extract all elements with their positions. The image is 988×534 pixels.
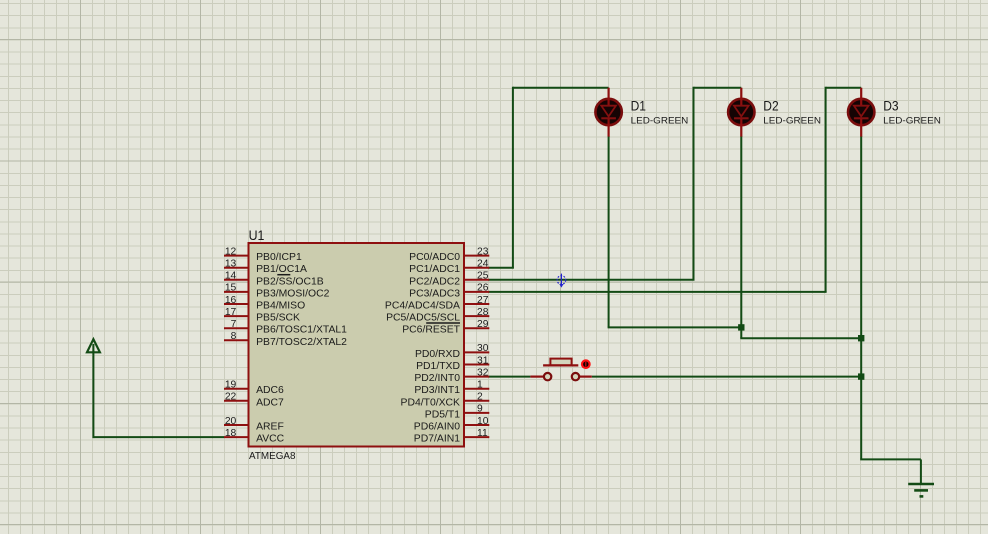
svg-text:13: 13 <box>225 259 237 270</box>
svg-text:PB6/TOSC1/XTAL1: PB6/TOSC1/XTAL1 <box>256 325 347 336</box>
pin 28 PC5/ADC5/SCL (right) <box>386 307 489 324</box>
svg-text:1: 1 <box>477 380 483 391</box>
pin 16 PB4/MISO (left) <box>224 295 305 312</box>
svg-text:PC6/RESET: PC6/RESET <box>402 325 460 336</box>
pin 18 AVCC (left) <box>224 428 285 445</box>
svg-text:PD3/INT1: PD3/INT1 <box>414 385 460 396</box>
svg-text:D1: D1 <box>631 98 646 114</box>
svg-text:PC5/ADC5/SCL: PC5/ADC5/SCL <box>386 313 460 324</box>
svg-text:ATMEGA8: ATMEGA8 <box>249 451 296 462</box>
pin 2 PD4/T0/XCK (right) <box>401 392 490 409</box>
svg-text:AREF: AREF <box>256 422 284 433</box>
svg-text:19: 19 <box>225 380 237 391</box>
svg-text:31: 31 <box>477 355 489 366</box>
svg-text:PD6/AIN0: PD6/AIN0 <box>414 422 460 433</box>
svg-text:PB5/SCK: PB5/SCK <box>256 313 300 324</box>
svg-text:2: 2 <box>477 392 483 403</box>
svg-text:29: 29 <box>477 319 489 330</box>
pin 8 PB7/TOSC2/XTAL2 (left) <box>224 331 347 348</box>
svg-text:32: 32 <box>477 367 489 378</box>
svg-text:PC0/ADC0: PC0/ADC0 <box>409 252 460 263</box>
pin 23 PC0/ADC0 (right) <box>409 246 489 263</box>
svg-text:PB0/ICP1: PB0/ICP1 <box>256 252 302 263</box>
svg-text:30: 30 <box>477 343 489 354</box>
svg-text:PC4/ADC4/SDA: PC4/ADC4/SDA <box>385 301 460 312</box>
LED D1 LED-GREEN <box>595 88 621 137</box>
wire D2 cathode down and right to junction <box>740 136 861 338</box>
svg-text:PB1/OC1A: PB1/OC1A <box>256 264 307 275</box>
svg-text:ADC6: ADC6 <box>256 385 284 396</box>
svg-text:PB4/MISO: PB4/MISO <box>256 301 305 312</box>
blue node origin marker on PC2 wire <box>557 274 566 288</box>
svg-text:U1: U1 <box>249 227 265 243</box>
svg-text:26: 26 <box>477 283 489 294</box>
push button red actuator indicator <box>581 359 591 369</box>
svg-text:PB2/SS/OC1B: PB2/SS/OC1B <box>256 276 324 287</box>
pin 7 PB6/TOSC1/XTAL1 (left) <box>224 319 347 336</box>
svg-text:25: 25 <box>477 271 489 282</box>
svg-text:15: 15 <box>225 283 237 294</box>
pin 30 PD0/RXD (right) <box>415 343 489 360</box>
LED D3 labels <box>883 98 941 125</box>
svg-text:27: 27 <box>477 295 489 306</box>
pin 22 ADC7 (left) <box>224 392 284 409</box>
svg-text:PD7/AIN1: PD7/AIN1 <box>414 434 460 445</box>
svg-text:16: 16 <box>225 295 237 306</box>
svg-text:8: 8 <box>231 331 237 342</box>
pin 12 PB0/ICP1 (left) <box>224 246 302 263</box>
svg-text:PC2/ADC2: PC2/ADC2 <box>409 276 460 287</box>
overline for active-low RESET on pin 29 <box>426 322 460 324</box>
LED D3 LED-GREEN <box>848 88 874 137</box>
pin 27 PC4/ADC4/SDA (right) <box>385 295 489 312</box>
svg-text:PD4/T0/XCK: PD4/T0/XCK <box>401 397 461 408</box>
svg-text:9: 9 <box>477 404 483 415</box>
pin 24 PC1/ADC1 (right) <box>409 259 489 276</box>
svg-text:24: 24 <box>477 259 489 270</box>
svg-text:PD5/T1: PD5/T1 <box>425 409 460 420</box>
svg-text:20: 20 <box>225 416 237 427</box>
overline for active-low SS on pin 14 <box>277 274 290 276</box>
svg-text:LED-GREEN: LED-GREEN <box>763 116 821 126</box>
svg-text:7: 7 <box>231 319 237 330</box>
svg-text:LED-GREEN: LED-GREEN <box>631 116 689 126</box>
svg-text:AVCC: AVCC <box>256 434 285 445</box>
svg-text:10: 10 <box>477 416 489 427</box>
wire net PC1 pin24 to D1 anode <box>488 87 608 268</box>
svg-text:PD0/RXD: PD0/RXD <box>415 349 460 360</box>
LED D1 labels <box>631 98 689 125</box>
pin 1 PD3/INT1 (right) <box>414 380 489 397</box>
svg-text:17: 17 <box>225 307 237 318</box>
wire net PD2 pin32 to button and ground rail <box>488 376 862 378</box>
svg-text:11: 11 <box>477 428 488 439</box>
svg-text:PD2/INT0: PD2/INT0 <box>414 373 460 384</box>
svg-text:D2: D2 <box>763 98 778 114</box>
svg-text:ADC7: ADC7 <box>256 397 284 408</box>
svg-text:18: 18 <box>225 428 237 439</box>
svg-text:PD1/TXD: PD1/TXD <box>416 361 460 372</box>
svg-text:12: 12 <box>225 246 237 257</box>
wire AVCC pin18 to power arrow <box>93 351 224 439</box>
pin 14 PB2/SS/OC1B (left) <box>224 271 324 288</box>
svg-text:PB7/TOSC2/XTAL2: PB7/TOSC2/XTAL2 <box>256 337 347 348</box>
svg-text:D3: D3 <box>883 98 898 114</box>
IC U1 ATMEGA8 body <box>249 243 465 447</box>
svg-text:PC3/ADC3: PC3/ADC3 <box>409 288 460 299</box>
power symbol VCC arrow <box>87 339 100 352</box>
pin 15 PB3/MOSI/OC2 (left) <box>224 283 330 300</box>
pin 13 PB1/OC1A (left) <box>224 259 307 276</box>
pin 20 AREF (left) <box>224 416 284 433</box>
wire net PC3 pin26 to D3 anode <box>488 87 861 292</box>
LED D2 LED-GREEN <box>728 88 754 137</box>
LED D2 labels <box>763 98 821 125</box>
svg-text:28: 28 <box>477 307 489 318</box>
svg-text:PB3/MOSI/OC2: PB3/MOSI/OC2 <box>256 288 330 299</box>
pin 19 ADC6 (left) <box>224 380 284 397</box>
svg-text:23: 23 <box>477 246 489 257</box>
wire net PC2 pin25 to D2 anode <box>488 87 741 280</box>
pin 17 PB5/SCK (left) <box>224 307 300 324</box>
pin 9 PD5/T1 (right) <box>425 404 490 421</box>
pin 11 PD7/AIN1 (right) <box>414 428 490 445</box>
svg-text:22: 22 <box>225 392 237 403</box>
svg-text:14: 14 <box>225 271 237 282</box>
pin 26 PC3/ADC3 (right) <box>409 283 489 300</box>
junction dot at D1/D2 cathode join <box>738 324 744 330</box>
pin 25 PC2/ADC2 (right) <box>409 271 489 288</box>
wire D3 cathode down to ground <box>860 136 921 484</box>
svg-text:LED-GREEN: LED-GREEN <box>883 116 941 126</box>
pin 29 PC6/RESET (right) <box>402 319 489 336</box>
pin 31 PD1/TXD (right) <box>416 355 489 372</box>
push button component <box>530 359 591 381</box>
junction dot at D2/D3 cathode join <box>858 335 864 341</box>
junction dot at button net / ground rail <box>858 373 864 379</box>
ground symbol <box>908 484 934 496</box>
svg-text:PC1/ADC1: PC1/ADC1 <box>409 264 460 275</box>
wire D1 cathode down and right to junction <box>608 136 742 327</box>
pin 32 PD2/INT0 (right) <box>414 367 489 384</box>
pin 10 PD6/AIN0 (right) <box>414 416 490 433</box>
